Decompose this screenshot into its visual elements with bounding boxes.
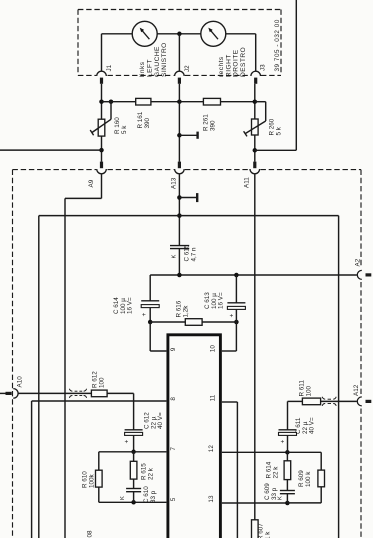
svg-text:J2: J2: [184, 65, 191, 72]
svg-text:A9: A9: [88, 179, 95, 187]
svg-text:rechts: rechts: [218, 56, 225, 77]
svg-text:J1: J1: [106, 64, 113, 71]
svg-text:5 k: 5 k: [121, 125, 128, 134]
svg-text:390: 390: [209, 120, 216, 131]
svg-text:A10: A10: [17, 376, 24, 388]
svg-text:+: +: [279, 440, 286, 444]
svg-text:+: +: [229, 314, 236, 318]
svg-text:16 V=: 16 V=: [127, 297, 134, 314]
svg-text:J3: J3: [260, 64, 267, 71]
svg-text:8: 8: [170, 397, 177, 401]
svg-text:13: 13: [208, 495, 215, 503]
svg-text:40 V=: 40 V=: [157, 412, 164, 429]
svg-text:100k: 100k: [88, 473, 95, 488]
svg-text:4,7 n: 4,7 n: [190, 247, 197, 262]
svg-text:K: K: [120, 496, 126, 500]
svg-text:RIGHT: RIGHT: [225, 54, 232, 77]
svg-text:39 705 - 032 00: 39 705 - 032 00: [274, 19, 281, 71]
svg-text:33 p: 33 p: [150, 490, 157, 503]
svg-text:links: links: [139, 61, 146, 77]
svg-text:1 k: 1 k: [264, 531, 271, 538]
svg-text:16 V=: 16 V=: [218, 292, 225, 309]
svg-text:A2: A2: [355, 258, 362, 266]
svg-text:390: 390: [144, 117, 151, 128]
svg-text:A11: A11: [244, 177, 251, 188]
svg-text:22 k: 22 k: [272, 466, 279, 479]
svg-text:08: 08: [87, 530, 94, 538]
svg-text:LEFT: LEFT: [147, 59, 154, 77]
svg-text:40 V=: 40 V=: [309, 417, 316, 434]
svg-text:GAUCHE: GAUCHE: [154, 46, 161, 77]
svg-text:11: 11: [210, 394, 217, 401]
svg-text:22 k: 22 k: [147, 467, 154, 480]
svg-text:DESTRO: DESTRO: [240, 47, 247, 77]
svg-text:100 k: 100 k: [305, 471, 312, 487]
svg-text:100: 100: [98, 377, 105, 388]
svg-text:7: 7: [170, 447, 177, 451]
svg-text:100: 100: [305, 385, 312, 396]
svg-text:12: 12: [208, 445, 215, 453]
svg-text:5 k: 5 k: [275, 126, 282, 135]
svg-text:+: +: [141, 313, 148, 317]
svg-text:DROITE: DROITE: [233, 49, 240, 77]
svg-text:+: +: [124, 440, 131, 444]
svg-text:A13: A13: [171, 177, 178, 189]
svg-text:5: 5: [170, 497, 177, 501]
svg-text:A12: A12: [353, 384, 360, 396]
svg-text:SINISTRO: SINISTRO: [161, 42, 168, 77]
svg-text:10: 10: [210, 345, 217, 353]
svg-text:K: K: [172, 255, 178, 259]
svg-text:1,2k: 1,2k: [182, 305, 189, 318]
svg-text:K: K: [278, 496, 284, 500]
svg-text:9: 9: [170, 347, 177, 351]
